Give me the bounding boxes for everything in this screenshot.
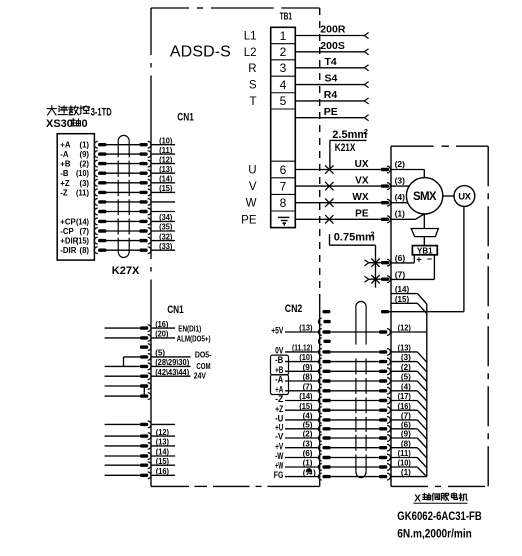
brake cone symbol: [411, 229, 438, 237]
svg-text:-CP: -CP: [60, 227, 73, 236]
wire SMX to UX encoder shaft link: [443, 195, 454, 197]
svg-text:(1): (1): [303, 459, 313, 468]
svg-text:(42\43\44): (42\43\44): [155, 368, 189, 377]
svg-text:PE: PE: [241, 214, 257, 226]
wire CN1 lower control (16): [105, 320, 176, 332]
svg-text:(11): (11): [398, 449, 412, 458]
CN2 left pin label (shell) for FG: [303, 468, 316, 477]
wire motor pin (2) to SMX winding top: [391, 170, 424, 178]
svg-text:+5V: +5V: [271, 326, 283, 336]
wire CN1 lower control (20): [105, 330, 176, 342]
jumper CN1 spare rows: [143, 386, 145, 396]
wire CN1 lower aux (15): [105, 457, 176, 469]
svg-text:(7): (7): [395, 270, 406, 280]
wire CN1 lower control spare: [105, 383, 151, 390]
svg-text:X: X: [414, 493, 421, 504]
svg-text:GK6062-6AC31-FB: GK6062-6AC31-FB: [397, 511, 482, 523]
svg-text:+V: +V: [275, 441, 283, 451]
wire CN2 -B signal (drive side): [275, 353, 390, 365]
wire CN2 +U signal (drive side): [275, 420, 390, 432]
wire CN2 -W signal (drive side): [275, 449, 390, 461]
terminal block TB1 outline: [271, 27, 296, 227]
svg-text:(16): (16): [398, 402, 412, 411]
svg-text:W: W: [246, 198, 257, 210]
svg-text:−: −: [427, 254, 432, 264]
svg-text:(3): (3): [395, 176, 406, 186]
CN2 cable shield pigtail beads (drive side): [318, 310, 330, 345]
svg-text:(6): (6): [395, 253, 406, 263]
wire motor encoder pin (7): [391, 412, 427, 431]
svg-text:(4): (4): [303, 412, 313, 421]
label XS30 axis-0 port (chinese): [46, 118, 88, 130]
wire CN2 FG signal (drive side): [274, 470, 391, 480]
wire TB1 R4 (to mains, open arrow): [295, 89, 368, 104]
svg-text:0V: 0V: [275, 346, 283, 356]
wire CN1 lower control (28\29\30): [105, 358, 191, 370]
wire TB1 200R (to mains, open arrow): [295, 24, 368, 39]
svg-text:WX: WX: [352, 192, 368, 203]
wire motor encoder pin (17): [391, 392, 427, 411]
wire CN2 +A signal (drive side): [275, 382, 390, 394]
svg-text:3: 3: [280, 61, 287, 75]
K27X twisted pair cable loop symbol: [118, 135, 129, 257]
svg-text:(5): (5): [303, 420, 313, 429]
cable designation 0.75mm2 leader (brake supply): [330, 229, 376, 287]
svg-text:(7): (7): [79, 227, 89, 236]
wire K27X cable conductor shield to CN1 (no label): [94, 208, 175, 215]
svg-text:V: V: [249, 181, 257, 193]
svg-text:(9): (9): [79, 150, 89, 159]
svg-text:U: U: [248, 165, 256, 177]
wire CN2 -V signal (drive side): [275, 430, 390, 442]
TB1 earth terminal symbol (ground): [278, 217, 289, 225]
wire brake to YB1: [423, 237, 425, 246]
svg-text:+W: +W: [275, 461, 283, 471]
svg-text:K27X: K27X: [112, 265, 140, 277]
svg-text:(10): (10): [159, 136, 173, 145]
svg-text:(12): (12): [156, 428, 170, 437]
svg-text:(13): (13): [159, 165, 173, 174]
wire motor encoder pin (1): [391, 468, 427, 477]
svg-text:ALM(DO5+): ALM(DO5+): [177, 333, 211, 343]
TB1 left terminal names L1 L2 R S T U V W PE: [241, 31, 257, 227]
svg-text:(7): (7): [401, 412, 411, 421]
wire TB1 200S (to mains, open arrow): [295, 40, 368, 55]
svg-text:(3): (3): [401, 353, 411, 362]
wire K27X cable conductor -B to CN1 (13): [60, 165, 175, 178]
wire K27X cable conductor -DIR to CN1 (33): [60, 242, 175, 255]
svg-text:200S: 200S: [320, 40, 345, 52]
svg-text:(14): (14): [299, 392, 313, 401]
svg-text:0.75mm: 0.75mm: [334, 232, 375, 244]
svg-text:(34): (34): [159, 213, 173, 222]
svg-text:(10): (10): [398, 459, 412, 468]
svg-text:+CP: +CP: [60, 217, 75, 226]
wire motor encoder pin (3): [391, 353, 427, 372]
wire encoder cable shield to motor frame UX: [381, 207, 464, 314]
svg-text:(5): (5): [401, 373, 411, 382]
svg-text:-A: -A: [275, 375, 284, 385]
svg-text:-DIR: -DIR: [60, 246, 76, 255]
wire K27X cable conductor +CP to CN1 (34): [60, 213, 175, 226]
svg-text:(17): (17): [398, 392, 412, 401]
svg-text:-V: -V: [275, 432, 283, 442]
wire TB1 S4 (to mains, open arrow): [295, 73, 368, 88]
svg-text:XS30: XS30: [46, 118, 73, 130]
svg-text:5: 5: [280, 94, 287, 108]
svg-text:(4): (4): [395, 192, 406, 202]
motor enclosure outline (dash-dot box): [391, 146, 488, 486]
svg-text:-W: -W: [275, 451, 284, 461]
svg-text:(4): (4): [401, 382, 411, 391]
svg-text:CN1: CN1: [167, 304, 184, 316]
svg-text:EN(DI1): EN(DI1): [178, 324, 201, 334]
svg-text:2.5mm: 2.5mm: [332, 129, 367, 141]
wire CN1 lower control spare: [105, 393, 151, 400]
svg-text:-B: -B: [60, 169, 69, 178]
svg-text:S: S: [249, 80, 257, 92]
svg-text:(2): (2): [395, 159, 406, 169]
motor SMX (servo motor symbol): [406, 178, 442, 214]
svg-text:R4: R4: [324, 89, 338, 101]
svg-text:(32): (32): [159, 232, 173, 241]
wire motor encoder pin (12): [391, 324, 427, 333]
brake coil YB1: [412, 246, 437, 256]
label Dalian CNC 3-1TD (chinese): [47, 106, 112, 119]
svg-text:-Z: -Z: [275, 394, 284, 404]
wire motor pin (14) thermal to encoder bus: [391, 285, 427, 304]
svg-text:24V: 24V: [194, 370, 206, 380]
cable designation K21X with 2.5mm2 size leader: [330, 127, 368, 170]
YB1 polarity terminals + -: [414, 254, 434, 279]
wire K27X cable conductor -A to CN1 (11): [60, 146, 175, 159]
wire CN2 +V signal (drive side): [275, 439, 390, 451]
svg-text:+B: +B: [60, 160, 71, 169]
svg-text:(: (: [303, 468, 306, 477]
svg-text:(11): (11): [159, 146, 173, 155]
jumper CN1 pin5 to pins 28/29/30: [123, 357, 125, 367]
svg-text:(15): (15): [395, 295, 410, 304]
wire TB1 T4 (to mains, open arrow): [295, 56, 368, 71]
svg-text:(14): (14): [76, 217, 89, 226]
wire CN1 lower aux (no label): [105, 421, 176, 428]
svg-text:-B: -B: [275, 355, 284, 365]
svg-text:+A: +A: [275, 384, 284, 394]
wire K27X cable conductor +Z to CN1 (14): [60, 175, 175, 188]
svg-text:0: 0: [82, 118, 88, 130]
svg-text:+A: +A: [60, 141, 71, 150]
svg-text:R: R: [248, 63, 256, 75]
svg-text:(13): (13): [299, 324, 313, 333]
svg-text:(2): (2): [79, 160, 89, 169]
wire PE motor power (TB1 to motor pin (1)): [295, 209, 390, 224]
svg-text:+Z: +Z: [275, 404, 284, 414]
svg-text:6: 6: [280, 163, 287, 177]
wire UX motor power (TB1 to motor pin (2)): [295, 159, 390, 174]
wire CN1 lower aux (13): [105, 438, 176, 450]
svg-text:8: 8: [280, 196, 287, 210]
wire K27X cable conductor -CP to CN1 (35): [60, 223, 175, 236]
svg-text:(8): (8): [401, 439, 411, 448]
svg-text:CN1: CN1: [177, 112, 194, 124]
wire CN2 -Z signal (drive side): [275, 392, 390, 404]
TB1 terminal numbers 1-8: [280, 29, 287, 210]
wire motor encoder pin (6): [391, 420, 427, 439]
CNC interface box (Dalian CNC XS30): [57, 134, 94, 260]
svg-text:(2): (2): [303, 430, 313, 439]
wire CN1 lower control spare: [140, 344, 151, 351]
svg-text:SMX: SMX: [413, 191, 437, 203]
svg-text:2: 2: [280, 45, 287, 59]
motor power pin labels (2)(3)(4)(1): [395, 159, 406, 219]
svg-text:(6): (6): [303, 449, 313, 458]
wire K27X cable conductor +B to CN1 (12): [60, 155, 175, 168]
wire motor pin (3) to SMX winding: [391, 185, 409, 187]
wire K27X cable conductor shield to CN1 (no label): [94, 199, 175, 206]
wire CN2 +Z signal (drive side): [275, 402, 390, 414]
svg-text:DO5-: DO5-: [195, 349, 212, 359]
svg-text:(3): (3): [79, 179, 89, 188]
svg-text:ADSD-S: ADSD-S: [170, 43, 231, 60]
svg-text:FG: FG: [274, 470, 284, 480]
svg-text:2: 2: [370, 229, 374, 238]
svg-text:(15): (15): [156, 457, 170, 466]
wire K27X cable conductor +A to CN1 (10): [60, 136, 175, 149]
wire WX motor power (TB1 to motor pin (4)): [295, 192, 390, 207]
svg-text:200R: 200R: [320, 24, 346, 36]
svg-text:(9): (9): [401, 430, 411, 439]
TB1 cell dividers: [271, 44, 296, 211]
svg-text:UX: UX: [355, 159, 369, 170]
wire CN2 +W signal (drive side): [275, 459, 390, 471]
wire VX motor power (TB1 to motor pin (3)): [295, 176, 390, 191]
CN2 twisted pair grouping bracket -B/+B: [271, 355, 289, 375]
wire brake supply to motor pin (6): [365, 253, 415, 267]
svg-text:+B: +B: [275, 365, 284, 375]
svg-text:(1): (1): [395, 209, 406, 219]
wire motor pin (1) to SMX winding bottom: [391, 214, 424, 219]
wire motor encoder pin (16): [391, 402, 427, 421]
svg-text:PE: PE: [324, 106, 338, 118]
svg-text:(16): (16): [155, 320, 169, 329]
svg-text:(9): (9): [303, 363, 313, 372]
wire CN1 lower aux (12): [105, 428, 176, 440]
wire CN1 lower aux (16): [105, 467, 176, 479]
svg-text:(15): (15): [76, 237, 89, 246]
encoder UX symbol: [454, 186, 475, 207]
wire motor encoder pin (13): [391, 344, 427, 363]
label X-axis servo motor (chinese, underlined): [414, 493, 468, 504]
svg-text:(15): (15): [159, 184, 173, 193]
svg-text:L2: L2: [244, 47, 257, 59]
wire brake supply to motor pin (7): [365, 270, 435, 284]
svg-text:(1): (1): [79, 141, 89, 150]
svg-text:S4: S4: [325, 73, 338, 85]
wire CN1 lower control (42\43\44): [105, 368, 191, 380]
wire motor encoder pin (2): [391, 363, 427, 382]
svg-text:6N.m,2000r/min: 6N.m,2000r/min: [397, 528, 472, 540]
svg-text:-Z: -Z: [60, 188, 68, 197]
svg-text:): ): [313, 468, 316, 477]
servo drive ADSD-S enclosure outline (dash-dot): [151, 8, 320, 486]
svg-text:(12): (12): [159, 155, 173, 164]
svg-text:(14): (14): [395, 285, 410, 294]
svg-text:+: +: [416, 254, 421, 264]
svg-text:2: 2: [364, 127, 368, 136]
svg-text:(11,12): (11,12): [292, 344, 313, 353]
svg-text:4: 4: [280, 78, 287, 92]
svg-text:(14): (14): [159, 175, 173, 184]
wire SMX bottom to brake: [423, 214, 425, 229]
wire CN2 +B signal (drive side): [275, 363, 390, 375]
wire CN1 lower control (5): [124, 349, 191, 361]
svg-text:(11): (11): [76, 188, 89, 197]
wire CN2 -A signal (drive side): [275, 373, 390, 385]
svg-text:CN2: CN2: [285, 303, 303, 315]
wire motor encoder pin (11): [391, 449, 427, 468]
wire K27X cable conductor -Z to CN1 (15): [60, 184, 175, 197]
svg-text:(33): (33): [159, 242, 173, 251]
svg-text:(10): (10): [299, 353, 313, 362]
svg-text:PE: PE: [355, 209, 369, 220]
svg-text:(3): (3): [303, 439, 313, 448]
svg-text:T4: T4: [325, 56, 337, 68]
svg-text:(20): (20): [155, 330, 169, 339]
wire K27X cable conductor +DIR to CN1 (32): [60, 232, 175, 245]
svg-text:1: 1: [280, 29, 287, 43]
svg-text:TB1: TB1: [280, 11, 293, 23]
CN2 shielded cable loop symbol: [356, 301, 366, 477]
svg-text:(7): (7): [303, 382, 313, 391]
wire CN2 0V signal (drive side): [275, 344, 390, 356]
svg-text:3-1TD: 3-1TD: [91, 106, 112, 118]
svg-text:-A: -A: [60, 150, 69, 159]
svg-text:(12): (12): [398, 324, 412, 333]
svg-text:(8): (8): [303, 373, 313, 382]
svg-text:(15): (15): [299, 402, 313, 411]
svg-text:(5): (5): [155, 349, 165, 358]
CN2 twisted pair grouping bracket -A/+A: [271, 375, 289, 395]
wire motor encoder pin (5): [391, 373, 427, 392]
svg-text:(14): (14): [156, 448, 170, 457]
svg-text:(28\29\30): (28\29\30): [155, 358, 189, 367]
wire motor encoder pin (10): [391, 459, 427, 477]
svg-text:(6): (6): [401, 420, 411, 429]
wire motor pin (15) thermal to encoder bus: [391, 295, 427, 314]
wire motor encoder pin (8): [391, 439, 427, 458]
wire motor pin (4) to SMX winding: [391, 202, 408, 204]
svg-text:UX: UX: [458, 192, 471, 203]
svg-text:+Z: +Z: [60, 179, 70, 188]
wire TB1 PE (to mains, open arrow): [295, 106, 368, 121]
encoder cable bundle line (motor side): [426, 304, 428, 477]
wire motor encoder pin (4): [391, 382, 427, 401]
wire CN1 lower aux (14): [105, 448, 176, 460]
svg-text:(8): (8): [79, 246, 89, 255]
svg-text:VX: VX: [355, 176, 369, 187]
svg-text:(13): (13): [156, 438, 170, 447]
svg-text:(16): (16): [156, 467, 170, 476]
wire CN2 +5V signal (drive side): [271, 324, 390, 336]
svg-text:(10): (10): [76, 169, 89, 178]
svg-text:K21X: K21X: [335, 142, 356, 154]
svg-text:T: T: [249, 96, 256, 108]
svg-text:7: 7: [280, 179, 287, 193]
svg-text:(1): (1): [401, 468, 411, 477]
wire CN2 -U signal (drive side): [275, 412, 390, 424]
svg-text:(35): (35): [159, 223, 173, 232]
svg-text:(13): (13): [398, 344, 412, 353]
svg-text:L1: L1: [244, 31, 257, 43]
svg-text:(2): (2): [401, 363, 411, 372]
wire motor encoder pin (9): [391, 430, 427, 449]
